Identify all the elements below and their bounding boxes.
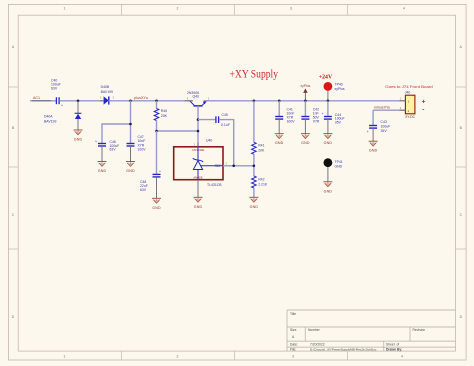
wire: TL431 anode to ground: [197, 180, 199, 198]
svg-text:XY-DC: XY-DC: [405, 115, 416, 119]
test point TP41: [324, 158, 343, 168]
svg-text:Sheet of: Sheet of: [386, 342, 399, 346]
wire: TP41 to ground: [327, 167, 329, 182]
wire: D40B to transistor: [109, 100, 193, 102]
wire: down to D40A: [77, 101, 79, 113]
svg-text:GND: GND: [369, 149, 378, 153]
test point TP40: [324, 82, 345, 101]
resistor R40: [154, 109, 167, 121]
svg-text:Size: Size: [290, 328, 297, 332]
power port xyPlus: [301, 84, 311, 101]
wire: rail to C42: [304, 101, 306, 116]
svg-text:0.1uF: 0.1uF: [221, 123, 230, 127]
wire: C46 to ground: [101, 146, 103, 162]
svg-text:7/20/2022: 7/20/2022: [310, 342, 325, 346]
svg-text:GND: GND: [301, 141, 310, 145]
svg-text:U40: U40: [206, 139, 212, 143]
junction at C45 tap: [197, 118, 200, 121]
svg-text:GND: GND: [74, 138, 83, 142]
svg-text:BAV199: BAV199: [44, 119, 56, 123]
wire: down to C48: [156, 131, 158, 174]
net label AC1: [33, 96, 40, 100]
wire: minusXYu to J40 pin2: [373, 109, 405, 111]
capacitor C47: [127, 135, 147, 152]
svg-text:minusXYu: minusXYu: [374, 106, 390, 110]
wire: C43 to ground: [372, 128, 374, 141]
svg-text:C45: C45: [222, 113, 228, 117]
svg-text:100uF: 100uF: [381, 125, 391, 129]
wire: C42 to ground: [304, 119, 306, 134]
ground below R42: [249, 197, 258, 209]
svg-text:+: +: [61, 104, 63, 108]
ground below TP41: [323, 182, 332, 194]
junction at C48 tap: [155, 130, 158, 133]
resistor R41: [252, 142, 265, 154]
svg-text:3: 3: [290, 7, 292, 11]
svg-text:D40A: D40A: [44, 114, 53, 118]
junction at C42 top: [304, 100, 307, 103]
ground below D40A: [74, 130, 83, 142]
svg-text:GND: GND: [194, 205, 203, 209]
ground below C43: [369, 141, 378, 153]
svg-text:20K: 20K: [258, 149, 265, 153]
wire: C45 to REF node: [219, 120, 234, 166]
minus mark at J40: [422, 107, 424, 114]
ground below C42: [301, 134, 310, 146]
svg-text:J40: J40: [405, 91, 411, 95]
transistor Q40: [185, 91, 216, 111]
svg-text:C43: C43: [381, 120, 387, 124]
wire: D40A to ground: [77, 119, 79, 130]
wire: Q40 base down: [197, 106, 199, 147]
svg-text:TL431CB: TL431CB: [207, 183, 222, 187]
svg-text:+: +: [322, 112, 324, 116]
wire: down to C43: [372, 110, 374, 125]
ground below C48: [152, 198, 161, 210]
capacitor C41: [275, 108, 295, 124]
svg-text:R41: R41: [258, 144, 264, 148]
svg-text:GND: GND: [126, 169, 135, 173]
svg-text:AC1: AC1: [33, 96, 40, 100]
ground below C47: [126, 162, 135, 174]
svg-text:ANODE: ANODE: [193, 175, 202, 179]
svg-text:R40: R40: [161, 109, 167, 113]
svg-text:2: 2: [177, 354, 179, 358]
svg-text:GND: GND: [275, 141, 284, 145]
svg-text:63V: 63V: [51, 87, 58, 91]
svg-text:3: 3: [292, 354, 294, 358]
capacitor C44: [322, 112, 345, 124]
svg-text:63V: 63V: [140, 188, 147, 192]
capacitor C43: [367, 120, 390, 134]
junction at D40A tap: [77, 100, 80, 103]
wire: rail to C41: [278, 101, 280, 116]
wire: C48 to ground: [156, 177, 158, 198]
svg-text:+: +: [422, 99, 426, 106]
ground below C46: [98, 162, 107, 174]
junction at C45/REF: [232, 165, 235, 168]
net label plusXYu: [134, 96, 148, 100]
svg-text:+: +: [95, 140, 97, 144]
svg-text:REF: REF: [215, 164, 222, 168]
wire: C47 to ground: [130, 146, 132, 162]
wire: rail to R40: [156, 101, 158, 109]
svg-text:GND: GND: [324, 189, 333, 193]
connector J40: [400, 91, 416, 120]
wire: rail to C44: [327, 101, 329, 116]
svg-text:Drawn By:: Drawn By:: [386, 348, 402, 352]
svg-text:GND: GND: [250, 205, 259, 209]
svg-text:GND: GND: [98, 169, 107, 173]
svg-text:+: +: [367, 130, 369, 134]
junction at plusXYu: [129, 100, 132, 103]
svg-text:D:\Circuits\..\XYPowerSupplyMB: D:\Circuits\..\XYPowerSupplyMB-Rev2b.Sch…: [310, 348, 377, 352]
svg-text:TP40: TP40: [335, 83, 343, 87]
svg-text:Title: Title: [290, 312, 296, 316]
wire: C40 to D40B: [59, 100, 104, 102]
svg-text:X7R: X7R: [313, 119, 320, 123]
svg-text:4: 4: [403, 7, 405, 11]
svg-text:Date:: Date:: [290, 342, 298, 346]
ground below U40: [194, 197, 203, 209]
junction at C44 top: [327, 100, 330, 103]
svg-text:xyPlus: xyPlus: [335, 87, 345, 91]
capacitor C46: [95, 140, 119, 152]
capacitor C48: [140, 170, 161, 192]
wire: base to C45: [198, 119, 216, 121]
svg-text:R42: R42: [258, 177, 264, 181]
svg-text:4: 4: [401, 354, 403, 358]
capacitor C40: [51, 79, 63, 108]
svg-text:Q40: Q40: [193, 95, 200, 99]
svg-text:Revision: Revision: [413, 328, 426, 332]
wire: plusXYu down and left to C46/C47: [102, 101, 131, 144]
svg-text:20K: 20K: [161, 114, 168, 118]
wire: rail to R41: [253, 101, 255, 143]
svg-text:plusXYu: plusXYu: [134, 96, 148, 100]
svg-text:+: +: [159, 170, 161, 174]
capacitor C42: [301, 108, 320, 124]
wire: R40 to base node: [157, 121, 199, 132]
junction at divider: [253, 165, 256, 168]
shunt regulator U40 TL431CB: [174, 139, 228, 187]
svg-text:GND: GND: [335, 164, 343, 168]
svg-text:100V: 100V: [287, 119, 296, 123]
svg-text:35V: 35V: [381, 129, 388, 133]
wire: R42 to ground: [253, 188, 255, 197]
svg-text:+XY Supply: +XY Supply: [230, 69, 279, 81]
svg-text:2.21K: 2.21K: [258, 182, 268, 186]
svg-text:D40B: D40B: [101, 85, 110, 89]
ground below C44: [323, 134, 332, 146]
resistor R42: [252, 176, 268, 188]
junction at R40 top: [155, 100, 158, 103]
diode D40A: [44, 113, 81, 123]
svg-text:63V: 63V: [110, 148, 117, 152]
plus mark at J40: [422, 99, 426, 106]
svg-text:File:: File:: [290, 348, 296, 352]
junction at R40 wire: [197, 130, 200, 133]
svg-text:35V: 35V: [335, 121, 342, 125]
ground below C41: [275, 134, 284, 146]
svg-text:Goes to J74 Front Board: Goes to J74 Front Board: [385, 85, 432, 89]
note: Goes to J74 Front Board: [385, 85, 432, 89]
svg-text:BAV199: BAV199: [101, 90, 113, 94]
wire: C44 to ground: [327, 119, 329, 134]
wire: C41 to ground: [278, 119, 280, 134]
svg-text:GND: GND: [152, 206, 161, 210]
wire: AC1 rail to C40: [30, 100, 56, 102]
svg-text:100V: 100V: [138, 148, 147, 152]
net label +24V: [319, 74, 333, 80]
svg-text:2: 2: [177, 7, 179, 11]
net label minusXYu: [374, 106, 390, 110]
wire: REF pin to divider: [223, 165, 254, 167]
svg-text:+24V: +24V: [319, 74, 333, 80]
wire: Q40 collector rail to J40: [205, 100, 406, 102]
svg-text:-: -: [422, 107, 424, 114]
svg-text:1: 1: [64, 7, 66, 11]
diode D40B: [100, 85, 115, 104]
svg-text:xyPlus: xyPlus: [301, 84, 311, 88]
wire: R41 to divider node: [253, 154, 255, 176]
junction at C41 top: [278, 100, 281, 103]
svg-text:GND: GND: [324, 141, 333, 145]
svg-text:Number: Number: [308, 328, 321, 332]
capacitor C45: [216, 113, 230, 127]
svg-text:1: 1: [64, 354, 66, 358]
junction at R41 top: [253, 100, 256, 103]
junction at C47 tap: [129, 123, 132, 126]
